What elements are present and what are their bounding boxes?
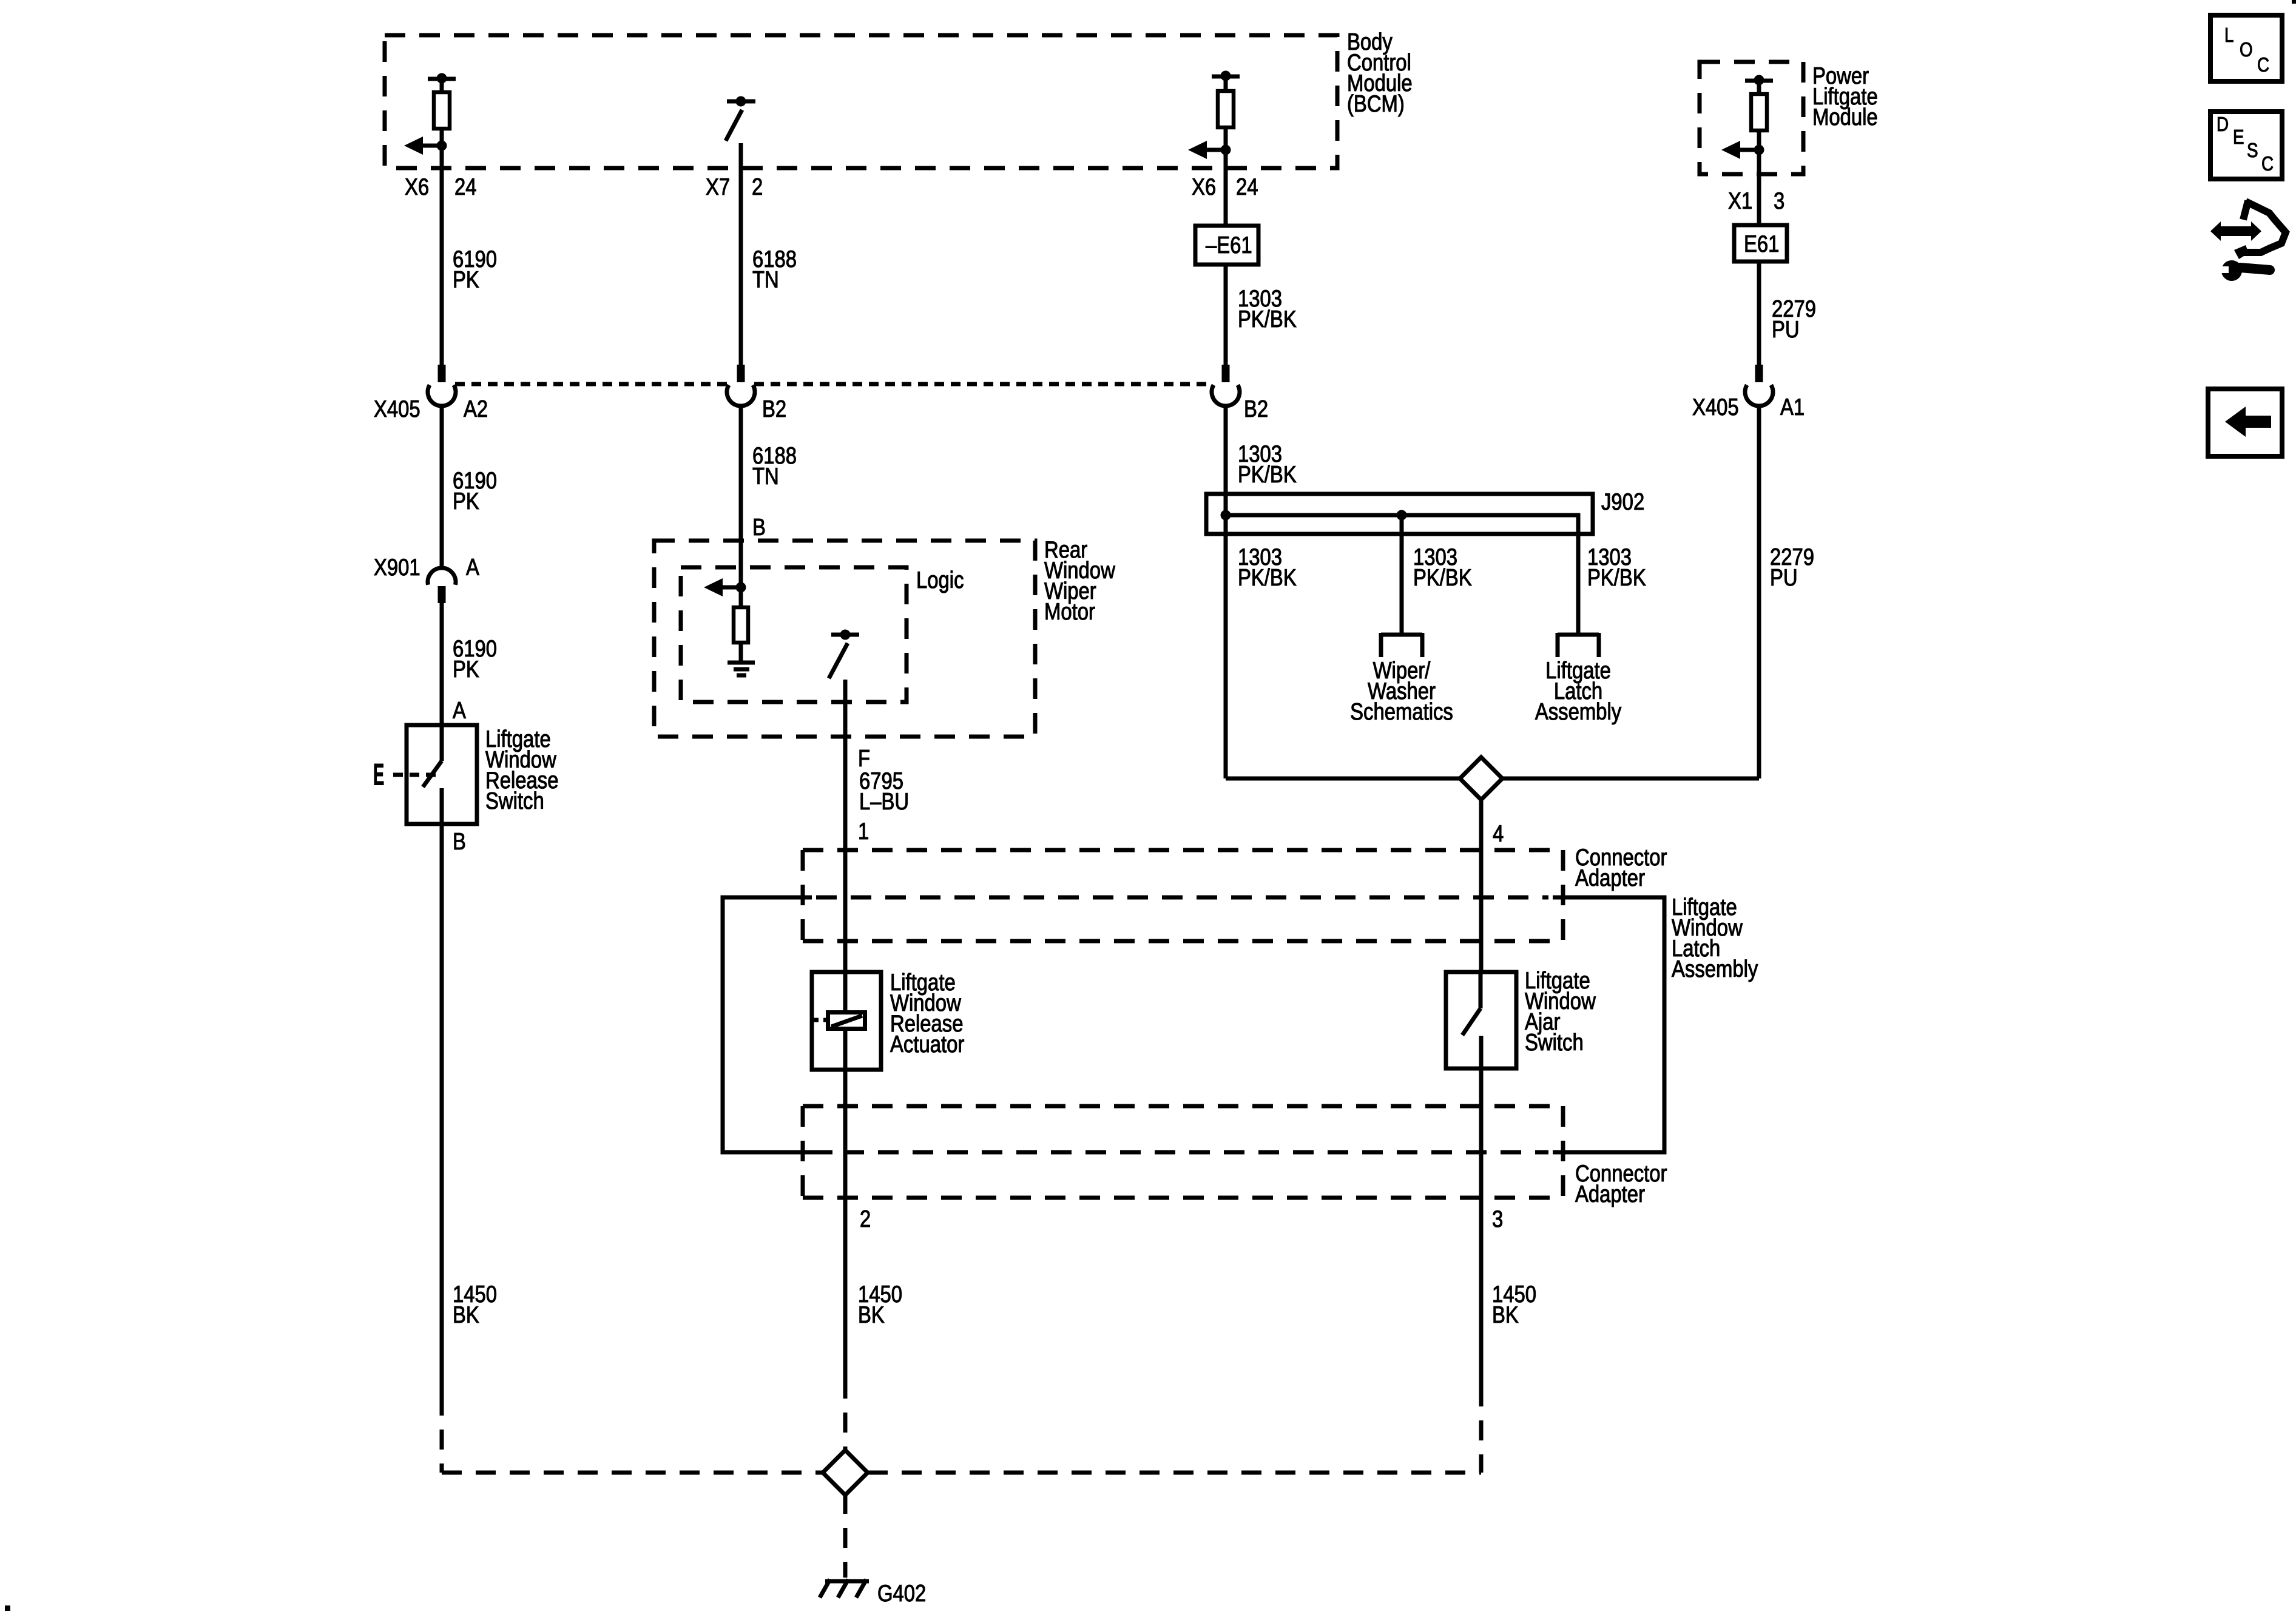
svg-text:–E61: –E61 [1206, 231, 1252, 258]
svg-text:PK/BK: PK/BK [1238, 305, 1297, 332]
wire col4 E61 to X405/A1 (2279 PU) [1757, 263, 1761, 365]
label Liftgate Window Release Actuator [890, 968, 964, 1057]
connector X405 pin A1 (col4) [1745, 365, 1773, 406]
connector adapter bottom band dashed outline [803, 1106, 1563, 1198]
wire col3b dashed drop to ground bus [1479, 1386, 1484, 1473]
actuator dashed actuation stub [814, 1018, 826, 1022]
svg-text:Actuator: Actuator [890, 1030, 964, 1057]
svg-text:X1: X1 [1728, 187, 1752, 214]
BCM high-side driver terminal bar and dot (col1) [428, 73, 456, 84]
page top-right corner mark [2292, 0, 2296, 4]
wire col3b ajar switch to ground net (1450 BK) [1479, 1068, 1484, 1386]
svg-text:Switch: Switch [485, 787, 544, 814]
X405 inline connector dotted line [455, 382, 1212, 387]
J902 bus bar with junction dots [1221, 495, 1579, 633]
svg-text:C: C [2257, 54, 2269, 76]
svg-text:Schematics: Schematics [1350, 698, 1453, 724]
wire label 6188 TN top [752, 245, 797, 292]
Rear Window Wiper Motor dashed box [654, 541, 1035, 737]
wire col2 X405/B2 to wiper motor junction (6188 TN) [739, 406, 743, 590]
sidebar wrench icon [2215, 260, 2270, 281]
connector label X901 A [374, 553, 479, 580]
svg-text:S: S [2247, 140, 2258, 162]
wire col2 BCM output 6188 TN [739, 143, 743, 365]
svg-text:24: 24 [454, 173, 477, 200]
label Liftgate Window Ajar Switch [1525, 967, 1596, 1055]
BCM output junction dot and left arrow col3 [1188, 141, 1231, 159]
ground symbol inside wiper motor [728, 663, 755, 675]
Body Control Module (BCM) dashed box [385, 35, 1337, 168]
wire label 1450 BK col1 [453, 1280, 497, 1328]
label Power Liftgate Module [1812, 62, 1878, 130]
terminal stub to Wiper/Washer Schematics [1381, 633, 1422, 657]
svg-text:A2: A2 [464, 395, 488, 422]
svg-text:BK: BK [453, 1301, 479, 1328]
PLM output junction dot and left arrow col4 [1721, 141, 1764, 159]
splice diamond on ground net [823, 1450, 868, 1495]
label G402 [877, 1579, 926, 1606]
actuator bypass loop wire [723, 897, 832, 1152]
svg-text:3: 3 [1492, 1205, 1503, 1232]
wire col1 X405 to X901 (6190 PK) [440, 406, 444, 569]
svg-text:Assembly: Assembly [1535, 698, 1621, 724]
wire label 1303 PK/BK top [1238, 285, 1297, 332]
svg-text:B2: B2 [1244, 395, 1268, 422]
svg-text:PK: PK [453, 655, 479, 682]
svg-text:BK: BK [858, 1301, 885, 1328]
splice diamond on 1303 PK/BK net [1460, 757, 1502, 800]
wire label 6188 TN mid [752, 442, 797, 489]
wire ground bus dashed right segment [868, 1471, 1481, 1475]
svg-text:B: B [752, 513, 766, 540]
wire label 6190 PK mid [453, 467, 497, 514]
pull-down resistor in logic box [734, 587, 748, 663]
label J902 [1601, 488, 1644, 515]
wire col2b dashed to splice diamond [843, 1379, 848, 1451]
svg-text:D: D [2217, 113, 2229, 136]
connector X405 pin A2 (col1) [428, 365, 456, 406]
resistor driver element col1 [434, 79, 450, 148]
wire col2b actuator to ground net (1450 BK) [843, 1070, 848, 1379]
BCM output junction dot and left arrow col1 [404, 137, 447, 155]
actuator coil inner rect with diagonal [828, 1013, 865, 1029]
wire label 2279 PU mid [1770, 543, 1814, 590]
connector label X405 A2 [374, 395, 488, 422]
svg-text:X6: X6 [405, 173, 429, 200]
connector X901 pin A (col1) [428, 568, 456, 603]
connector label B2 col3 [1244, 395, 1268, 422]
Power Liftgate Module dashed box [1700, 62, 1803, 174]
svg-text:PK/BK: PK/BK [1238, 564, 1297, 590]
wire label 1303 PK/BK under J902 left [1238, 543, 1297, 590]
wire ground bus dashed left segment [442, 1471, 823, 1475]
pin label B release switch [453, 828, 466, 854]
svg-text:Switch: Switch [1525, 1028, 1584, 1055]
pin label 1 actuator [858, 817, 869, 844]
Liftgate Window Release Switch box [407, 725, 477, 824]
svg-text:PK: PK [453, 266, 479, 292]
svg-text:X6: X6 [1192, 173, 1216, 200]
resistor driver element col4 [1751, 81, 1767, 152]
svg-text:TN: TN [752, 266, 779, 292]
label Connector Adapter top [1575, 843, 1667, 891]
resistor driver element col3 [1218, 76, 1234, 152]
svg-text:E: E [2233, 126, 2244, 149]
connector label X405 A1 [1692, 393, 1805, 420]
wire col3 BCM X6-24 to E61 (1303 PK/BK) [1224, 150, 1228, 227]
pin label X6 24 col1 [405, 173, 477, 200]
pin label X7 2 col2 [706, 173, 763, 200]
park switch in logic box (dot, bar, open arm) [829, 630, 859, 679]
svg-text:PK: PK [453, 487, 479, 514]
svg-text:B2: B2 [762, 395, 786, 422]
label Liftgate Window Latch Assembly [1672, 893, 1758, 982]
svg-text:A: A [466, 553, 479, 580]
ground G402 symbol [820, 1579, 869, 1598]
svg-text:4: 4 [1493, 820, 1504, 846]
svg-text:Adapter: Adapter [1575, 1180, 1645, 1207]
svg-text:PK/BK: PK/BK [1587, 564, 1646, 590]
svg-text:2: 2 [752, 173, 763, 200]
Liftgate Window Latch Assembly solid outline [1553, 897, 1664, 1152]
label Body Control Module (BCM) [1347, 28, 1413, 116]
splice pack J902 box [1206, 494, 1593, 534]
svg-text:3: 3 [1774, 187, 1784, 214]
svg-text:PU: PU [1772, 316, 1800, 342]
svg-text:1: 1 [858, 817, 869, 844]
wire label 6795 L-BU [859, 767, 909, 814]
wire col1 release switch to ground net (1450 BK) [440, 824, 444, 1396]
sidebar LOC icon box [2210, 15, 2282, 81]
label Liftgate Window Release Switch [485, 725, 558, 814]
svg-text:X7: X7 [706, 173, 730, 200]
svg-text:2: 2 [860, 1205, 871, 1232]
pin label 3 ajar [1492, 1205, 1503, 1232]
svg-text:J902: J902 [1601, 488, 1644, 515]
sidebar back arrow icon box [2208, 389, 2282, 456]
label B wiper motor pin [752, 513, 766, 540]
label Wiper/Washer Schematics [1350, 657, 1453, 724]
wire label 1303 PK/BK mid [1238, 440, 1297, 487]
PLM high-side driver terminal bar and dot (col4) [1745, 75, 1773, 86]
page corner period mark [5, 1605, 10, 1611]
pin label 2 actuator [860, 1205, 871, 1232]
svg-text:B: B [453, 828, 466, 854]
svg-text:L–BU: L–BU [859, 788, 909, 814]
wire col3b splice diamond to ajar switch [1479, 800, 1484, 973]
svg-text:TN: TN [752, 462, 779, 489]
pin label X1 3 col4 [1728, 187, 1784, 214]
svg-text:PU: PU [1770, 564, 1798, 590]
Logic dashed box inside wiper motor [681, 567, 907, 702]
logic box left arrow and junction dot [704, 578, 746, 596]
svg-text:E: E [373, 757, 384, 792]
wire col3 J902 to corner (1303 PK/BK) [1226, 533, 1460, 778]
svg-text:X405: X405 [1692, 393, 1739, 420]
svg-text:Motor: Motor [1044, 598, 1095, 624]
svg-text:X405: X405 [374, 395, 420, 422]
pin label 4 ajar [1493, 820, 1504, 846]
wire col1 dashed drop to ground bus [440, 1396, 444, 1473]
in-line connector -E61 (col3) [1195, 226, 1258, 265]
connector label B2 col2 [762, 395, 786, 422]
svg-text:L: L [2224, 24, 2234, 47]
svg-text:A1: A1 [1780, 393, 1805, 420]
wire label 1450 BK col2b [858, 1280, 902, 1328]
BCM high-side driver terminal bar and dot (col3) [1212, 71, 1240, 81]
wire J902 drop to wiper/washer schematics [1400, 515, 1404, 633]
svg-text:Assembly: Assembly [1672, 955, 1758, 982]
wire col1 BCM output 6190 PK (circuit 6190) [440, 146, 444, 365]
svg-text:G402: G402 [877, 1579, 926, 1606]
wire col4 PLM output to E61 (2279 PU) [1757, 150, 1761, 226]
in-line connector E61 (col4) [1734, 225, 1787, 262]
wire col3 X405/B2 to J902 (1303 PK/BK) [1224, 406, 1228, 495]
actuator through wire [843, 972, 848, 1070]
BCM switch col2 (dot, bar, open switch arm) [726, 96, 755, 141]
wire label 6190 PK top [453, 245, 497, 292]
connector X405 pin B2 (col2) [727, 365, 755, 406]
wire col4 X405/A1 to corner (2279 PU) [1502, 406, 1759, 778]
connector X405 pin B2 (col3) [1212, 365, 1240, 406]
sidebar schematic navigation icon (double arrow with jag) [2210, 201, 2286, 259]
svg-text:O: O [2240, 39, 2253, 61]
svg-text:PK/BK: PK/BK [1238, 461, 1297, 487]
wire col2b dashed splice to G402 [843, 1494, 848, 1578]
wire col1 X901 to release switch (6190 PK) [440, 603, 444, 726]
label Logic [916, 566, 964, 593]
terminal stub to Liftgate Latch Assembly [1558, 633, 1599, 657]
svg-text:Adapter: Adapter [1575, 864, 1645, 891]
pin label A release switch [453, 697, 466, 723]
wire label 6190 PK lower [453, 635, 497, 682]
wire col2b wiper switch to actuator (6795 L-BU) [843, 680, 848, 973]
pin label F wiper motor [858, 744, 870, 771]
release switch contacts and open arm [423, 726, 442, 823]
ajar switch contacts and open arm [1462, 972, 1481, 1068]
svg-text:(BCM): (BCM) [1347, 90, 1405, 116]
svg-text:PK/BK: PK/BK [1413, 564, 1472, 590]
label Liftgate Latch Assembly [1535, 657, 1621, 724]
sidebar DESC icon box [2210, 112, 2282, 179]
label Rear Window Wiper Motor [1044, 536, 1116, 624]
pin label X6 24 col3 [1192, 173, 1258, 200]
wire label 2279 PU top [1772, 295, 1816, 342]
svg-text:X901: X901 [374, 553, 420, 580]
wire label 1450 BK col3b [1492, 1280, 1536, 1328]
wire label 1303 PK/BK under J902 middle [1413, 543, 1472, 590]
svg-text:E61: E61 [1744, 230, 1779, 257]
label Connector Adapter bottom [1575, 1160, 1667, 1207]
svg-text:Logic: Logic [916, 566, 964, 593]
svg-text:A: A [453, 697, 466, 723]
connector adapter top band dashed outline [803, 850, 1563, 941]
wire label 1303 PK/BK under J902 right [1587, 543, 1646, 590]
svg-text:C: C [2261, 153, 2274, 175]
svg-text:24: 24 [1236, 173, 1258, 200]
E actuation label and dashed link [373, 757, 439, 792]
svg-text:BK: BK [1492, 1301, 1519, 1328]
wire col3 E61 to X405/B2 (1303 PK/BK) [1224, 263, 1228, 365]
svg-text:Module: Module [1812, 103, 1878, 130]
Liftgate Window Release Actuator box [812, 972, 881, 1070]
Liftgate Window Ajar Switch box [1446, 972, 1516, 1068]
